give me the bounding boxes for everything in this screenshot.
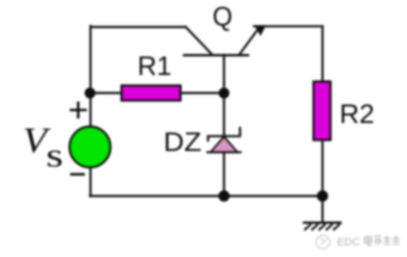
svg-text:DZ: DZ [164, 127, 202, 157]
svg-text:Q: Q [213, 2, 233, 32]
svg-text:R2: R2 [340, 99, 375, 129]
svg-text:EDC: EDC [337, 237, 360, 249]
svg-text:R1: R1 [138, 51, 172, 81]
svg-text:s: s [46, 136, 63, 174]
